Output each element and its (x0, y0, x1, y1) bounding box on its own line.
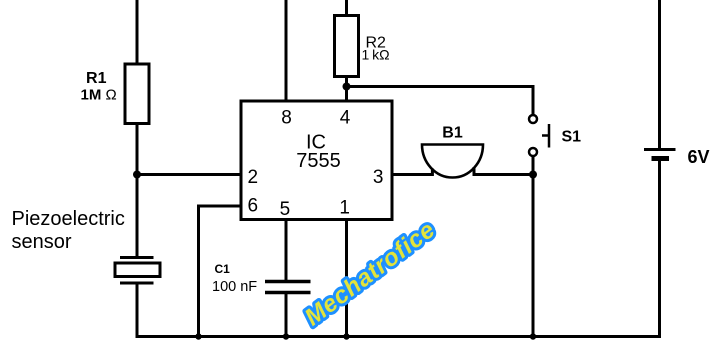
svg-text:Piezoelectric: Piezoelectric (12, 208, 125, 230)
wire pin 6 to ground (199, 206, 242, 337)
svg-text:1M Ω: 1M Ω (81, 87, 117, 104)
wire battery to ground rail (658, 161, 661, 337)
resistor R1 (125, 64, 149, 124)
wire C1 to ground (285, 293, 288, 337)
svg-text:6V: 6V (688, 147, 710, 167)
wire top feed pin 8 (285, 0, 288, 101)
wire top feed to R2 (345, 0, 348, 16)
svg-text:5: 5 (280, 199, 291, 220)
svg-text:B1: B1 (442, 125, 463, 142)
svg-text:sensor: sensor (12, 231, 72, 253)
svg-text:8: 8 (281, 108, 292, 129)
capacitor C1 (265, 282, 311, 293)
svg-text:R1: R1 (86, 70, 107, 87)
piezoelectric sensor (115, 258, 160, 284)
svg-text:1: 1 (339, 198, 350, 219)
wire top feed to R1 (136, 0, 139, 64)
wire R2 bottom to pin 4 (345, 77, 348, 102)
wire pin 5 to C1 (285, 220, 288, 282)
svg-text:2: 2 (248, 167, 259, 188)
node junction R2/S1 (343, 83, 351, 91)
wire supply rail to battery (658, 0, 661, 150)
wire pin 3 to B1 (392, 169, 432, 175)
svg-text:3: 3 (373, 167, 384, 188)
svg-text:1 kΩ: 1 kΩ (362, 47, 390, 63)
svg-text:6: 6 (248, 196, 259, 217)
ground rail (bottom) (136, 335, 662, 338)
resistor R2 (335, 16, 359, 77)
node C1/ground (283, 333, 289, 339)
wire pin 1 to ground (345, 220, 348, 337)
node junction R1/pin2 (133, 171, 141, 179)
node S1/pin3 (529, 171, 537, 179)
wire piezo to ground rail (136, 283, 139, 337)
svg-text:S1: S1 (562, 129, 582, 146)
svg-text:100 nF: 100 nF (212, 279, 257, 295)
wire junction to S1 (347, 87, 534, 115)
svg-text:7555: 7555 (296, 150, 341, 172)
node S1/ground (530, 333, 536, 339)
wire pin 2 (137, 173, 241, 176)
switch S1 (529, 115, 549, 156)
node pin1/ground (343, 333, 349, 339)
buzzer B1 (422, 145, 483, 178)
svg-text:C1: C1 (215, 262, 231, 276)
wire B1 to S1 node (474, 167, 533, 175)
battery BT1 6V (644, 150, 676, 159)
wire R1 bottom to piezo (136, 124, 139, 258)
node pin6/ground (195, 333, 201, 339)
op-amp/timer U1 IC 7555 (241, 101, 392, 220)
wire S1 bottom to ground (532, 157, 535, 337)
svg-text:4: 4 (340, 108, 351, 129)
